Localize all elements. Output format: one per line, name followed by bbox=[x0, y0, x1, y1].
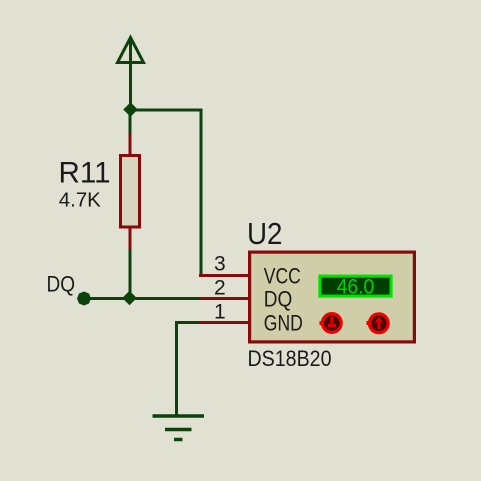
svg-text:4.7K: 4.7K bbox=[59, 189, 101, 212]
power symbol P1 bbox=[118, 38, 144, 111]
wire R1 bottom bbox=[129, 249, 132, 299]
svg-text:DQ: DQ bbox=[264, 287, 293, 312]
wire vcc vertical bbox=[200, 109, 203, 275]
svg-text:DQ: DQ bbox=[47, 272, 76, 297]
svg-text:GND: GND bbox=[264, 311, 303, 336]
pin 2 stub bbox=[199, 297, 249, 300]
wire DQ horizontal bbox=[88, 297, 200, 300]
svg-text:2: 2 bbox=[214, 277, 226, 300]
node junction DQ bbox=[123, 292, 136, 305]
svg-text:1: 1 bbox=[214, 301, 226, 324]
wire R1 top bbox=[129, 110, 132, 134]
wire GND horizontal bbox=[177, 323, 201, 417]
svg-text:46.0: 46.0 bbox=[337, 275, 375, 298]
resistor R11 bbox=[121, 133, 140, 250]
svg-text:R11: R11 bbox=[59, 157, 111, 190]
button up bbox=[367, 314, 389, 333]
svg-text:3: 3 bbox=[214, 253, 226, 276]
node junction top bbox=[124, 103, 137, 116]
svg-text:U2: U2 bbox=[247, 216, 283, 251]
pin 3 stub bbox=[199, 274, 249, 277]
pin 1 stub bbox=[199, 321, 249, 324]
temperature display bbox=[320, 275, 391, 298]
button down bbox=[320, 314, 342, 333]
ground symbol bbox=[153, 416, 205, 440]
svg-text:VCC: VCC bbox=[264, 264, 301, 289]
component U2 body bbox=[250, 252, 415, 342]
wire vcc horizontal bbox=[129, 109, 201, 112]
node DQ terminal bbox=[77, 292, 91, 306]
svg-text:DS18B20: DS18B20 bbox=[248, 346, 332, 371]
